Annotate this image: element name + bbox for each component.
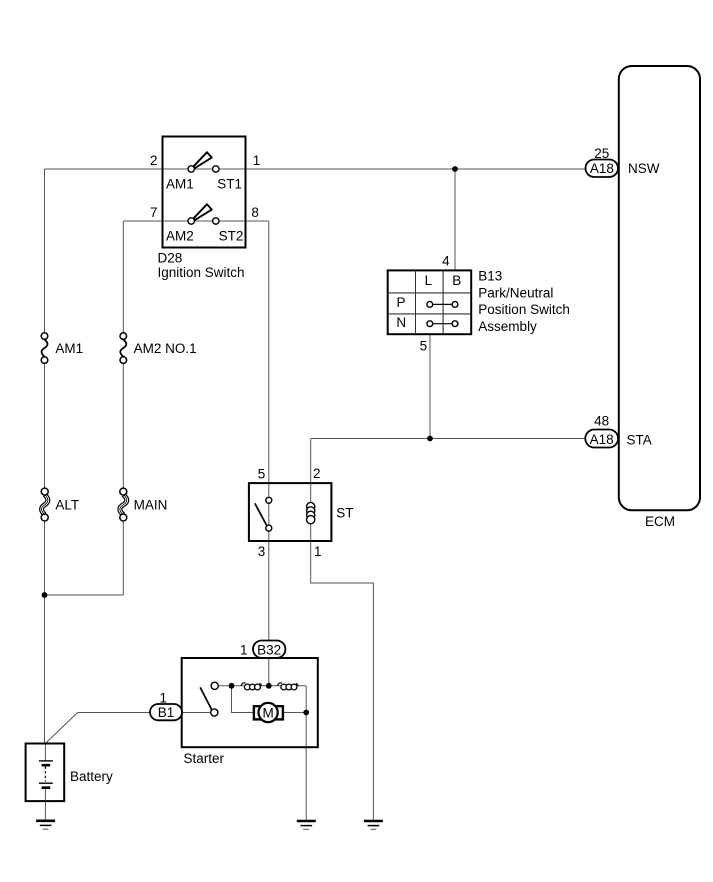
wire AM2 horizontal to ignition switch pin 7 — [123, 220, 162, 222]
node junction dot starter motor right — [303, 710, 309, 716]
relay ST box — [249, 483, 332, 541]
wire left vertical rail upper segment — [44, 169, 46, 336]
svg-text:L: L — [425, 273, 433, 288]
switch lever row 2 — [194, 204, 212, 220]
svg-text:5: 5 — [420, 339, 428, 354]
svg-text:Ignition Switch: Ignition Switch — [158, 265, 245, 280]
contact ST1 pin 1 — [213, 166, 219, 172]
wire left vertical rail lower segment — [44, 518, 46, 744]
svg-text:48: 48 — [594, 414, 609, 429]
svg-text:B: B — [452, 273, 461, 288]
svg-text:D28: D28 — [158, 251, 183, 266]
svg-text:Assembly: Assembly — [478, 319, 537, 334]
svg-text:ALT: ALT — [55, 497, 79, 512]
ST relay contact bottom — [266, 525, 272, 531]
connector A18 STA oval — [585, 430, 618, 448]
fuse AM2 NO.1 — [120, 333, 127, 364]
svg-text:ST: ST — [336, 505, 353, 520]
node junction dot STA/B13 — [427, 436, 433, 442]
svg-text:4: 4 — [442, 254, 450, 269]
motor M — [254, 703, 283, 722]
wire battery bottom to ground — [44, 788, 46, 821]
svg-text:STA: STA — [627, 433, 652, 448]
svg-text:A18: A18 — [590, 432, 614, 447]
wire second rail bottom horizontal joining left rail — [45, 594, 124, 596]
switch lever row 1 — [194, 152, 212, 168]
wire starter coil top rail — [215, 685, 307, 687]
battery box — [26, 744, 65, 802]
wire from B13 pin 5 down to STA junction — [429, 334, 431, 438]
svg-text:A18: A18 — [590, 161, 614, 176]
wire second vertical rail lower segment — [122, 518, 124, 596]
fuse AM1 — [41, 333, 48, 364]
node junction dot NSW/B13 — [452, 166, 458, 172]
wire ST relay pin 1 to ground — [311, 541, 374, 821]
ST relay coil — [307, 502, 315, 523]
svg-text:NSW: NSW — [628, 161, 660, 176]
starter switch contact top — [211, 682, 218, 689]
svg-text:B32: B32 — [257, 643, 281, 658]
svg-text:2: 2 — [313, 466, 321, 481]
wire starter to ground — [305, 713, 307, 822]
wire ST2 down through ST relay to starter — [268, 221, 270, 686]
svg-text:1: 1 — [253, 153, 261, 168]
wire from NSW junction down to B13 pin 4 — [454, 169, 456, 270]
starter box — [182, 658, 318, 747]
svg-text:M: M — [262, 705, 273, 720]
B13 contact P row — [427, 302, 458, 308]
node junction dot rails join — [42, 592, 48, 598]
svg-text:MAIN: MAIN — [134, 497, 168, 512]
ST relay switch lever — [255, 503, 267, 525]
svg-text:N: N — [396, 315, 406, 330]
svg-text:AM2 NO.1: AM2 NO.1 — [134, 341, 197, 356]
connector B32 oval — [253, 641, 285, 658]
svg-text:Battery: Battery — [70, 769, 113, 784]
svg-text:AM2: AM2 — [166, 229, 194, 244]
contact AM2 pin 7 — [188, 218, 194, 224]
wire ST relay pin 2 vertical — [310, 439, 312, 542]
svg-text:3: 3 — [258, 544, 266, 559]
svg-text:B1: B1 — [158, 705, 175, 720]
starter switch contact bottom — [211, 709, 218, 716]
ECM box — [619, 66, 700, 510]
wire top-left horizontal to ignition switch pin 2 — [45, 168, 163, 170]
node junction dot starter coil left — [229, 683, 235, 689]
svg-text:AM1: AM1 — [166, 177, 194, 192]
wire battery internal top — [44, 744, 46, 762]
svg-text:AM1: AM1 — [55, 341, 83, 356]
svg-text:ECM: ECM — [645, 514, 675, 529]
wire battery to B1 horizontal — [78, 712, 215, 714]
wire starter motor left branch — [232, 686, 254, 713]
svg-text:7: 7 — [150, 205, 158, 220]
wire row2 through ignition switch — [163, 220, 246, 222]
svg-text:Position Switch: Position Switch — [478, 302, 570, 317]
svg-text:1: 1 — [240, 643, 248, 658]
fusible link MAIN — [120, 488, 127, 521]
ground ST relay — [364, 821, 383, 829]
battery cell plates — [39, 761, 53, 788]
connector A18 NSW oval — [586, 160, 619, 178]
svg-text:ST1: ST1 — [217, 177, 242, 192]
svg-text:2: 2 — [150, 153, 158, 168]
svg-text:8: 8 — [251, 205, 259, 220]
wire second vertical rail upper segment — [122, 221, 124, 336]
wire left vertical rail middle segment — [44, 360, 46, 492]
svg-text:B13: B13 — [478, 268, 502, 283]
park/neutral position switch B13 box — [388, 270, 472, 334]
wire starter right down-corner — [305, 686, 307, 713]
ground battery — [36, 821, 55, 829]
wire second vertical rail middle segment — [122, 360, 124, 492]
svg-text:Park/Neutral: Park/Neutral — [478, 286, 553, 301]
svg-text:P: P — [396, 295, 405, 310]
wire row1 through ignition switch — [163, 168, 246, 170]
ground starter — [297, 821, 316, 829]
B13 contact N row — [427, 321, 458, 327]
wire ST2 horizontal stub — [246, 220, 269, 222]
fusible link ALT — [41, 488, 48, 521]
ignition switch D28 box — [163, 137, 246, 248]
svg-text:1: 1 — [314, 544, 322, 559]
svg-text:5: 5 — [258, 466, 266, 481]
contact ST2 pin 8 — [213, 218, 219, 224]
wire STA horizontal to ECM — [311, 438, 586, 440]
connector B1 oval — [150, 704, 182, 720]
ST relay contact top — [266, 497, 272, 503]
svg-text:25: 25 — [594, 146, 609, 161]
wire ST1 to ECM NSW — [246, 168, 586, 170]
contact AM1 pin 2 — [188, 166, 194, 172]
starter coil 1 — [241, 683, 262, 690]
svg-text:1: 1 — [159, 691, 167, 706]
wire battery diagonal — [45, 713, 77, 744]
svg-text:ST2: ST2 — [219, 229, 244, 244]
starter switch lever — [200, 687, 212, 710]
node junction dot starter coil mid — [266, 683, 272, 689]
svg-text:Starter: Starter — [184, 751, 225, 766]
starter coil 2 — [277, 683, 298, 690]
wire starter motor right branch — [283, 712, 306, 714]
